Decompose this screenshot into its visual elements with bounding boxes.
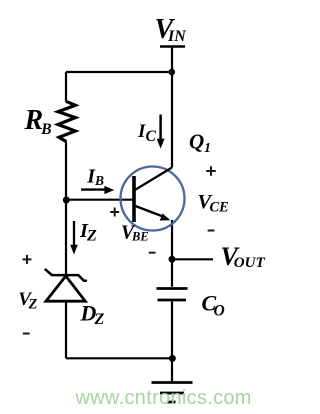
svg-text:R: R [24, 105, 44, 136]
svg-text:Z: Z [94, 311, 105, 328]
svg-text:BE: BE [131, 230, 149, 244]
svg-text:1: 1 [204, 141, 211, 156]
svg-text:IN: IN [167, 28, 187, 45]
svg-text:Q: Q [189, 130, 204, 154]
svg-text:B: B [40, 121, 51, 138]
svg-text:CE: CE [210, 200, 230, 216]
svg-text:B: B [94, 173, 104, 188]
svg-text:OUT: OUT [234, 255, 266, 271]
svg-text:Z: Z [28, 297, 38, 313]
svg-text:O: O [214, 303, 225, 320]
svg-text:Z: Z [86, 228, 97, 245]
svg-text:C: C [146, 128, 157, 145]
svg-text:www.cntronics.com: www.cntronics.com [75, 387, 252, 409]
